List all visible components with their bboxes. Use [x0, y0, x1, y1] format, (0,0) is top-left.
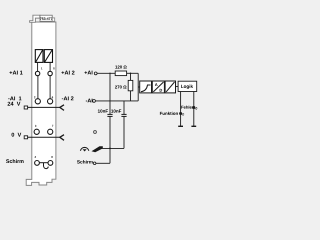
end bar Fehler line: [191, 125, 196, 127]
label 10nF C1: [98, 109, 108, 112]
terminal circle 2 (-AI 1): [35, 99, 40, 104]
terminal circle 8 (Schirm): [48, 161, 53, 166]
wire isolation to logic: [176, 86, 179, 88]
schematic label -AI: [86, 99, 93, 103]
chassis arc symbol: [80, 147, 88, 150]
wire between shield terminals: [39, 162, 48, 164]
label Fehler: [181, 106, 193, 109]
terminal circle 7: [48, 129, 53, 134]
internal reference circle: [94, 131, 97, 134]
pin number 2: [34, 96, 35, 98]
A/D converter box: [152, 81, 164, 93]
capacitor C1 lead from +AI wire: [109, 73, 111, 114]
top right step: [52, 18, 55, 21]
LED line from logic (Funktion): [180, 92, 182, 127]
filter box: [140, 81, 152, 93]
schematic -AI terminal circle: [93, 100, 96, 103]
differential input riser wire: [137, 73, 139, 101]
wire clamp1 to terminal 1: [37, 62, 39, 71]
resistor 120 ohm: [115, 71, 126, 76]
terminal circle 5 (+AI 2): [48, 71, 52, 75]
label -AI 2: [62, 96, 74, 100]
capacitor C2 lead to shield bus: [123, 116, 125, 148]
schematic +AI terminal circle: [94, 72, 97, 75]
schematic +AI wire: [97, 72, 115, 74]
LED Fehler: [192, 106, 195, 109]
0V power jumper square terminal: [24, 136, 27, 139]
0V jumper rail wire: [28, 136, 60, 138]
pin number 7: [52, 125, 53, 127]
LED line from logic (Fehler): [193, 92, 195, 127]
pin number 5: [53, 68, 54, 70]
capacitor C1 lead to shield bus: [109, 116, 111, 148]
label +AI 1: [9, 71, 22, 75]
label 120 ohm: [115, 65, 126, 68]
wire clamp2 to terminal 5: [49, 62, 51, 71]
shield clamp hook symbol: [44, 163, 49, 169]
wire riser to filter box: [138, 86, 140, 88]
shield bus wire: [101, 147, 125, 149]
24V power jumper square terminal: [24, 106, 27, 109]
top DIN latch hook: [30, 15, 40, 22]
capacitor C1 10nF plates: [107, 113, 112, 115]
pin number 1: [41, 68, 42, 70]
pin number 8: [51, 156, 52, 158]
schematic label +AI: [84, 71, 92, 75]
terminal circle 6 (-AI 2): [48, 99, 53, 104]
terminal circle 3: [34, 129, 39, 134]
terminal circle 4 (Schirm): [35, 161, 40, 166]
label 0 V: [12, 133, 22, 137]
pin number 3: [35, 125, 36, 127]
label +AI 2: [61, 71, 74, 75]
wire 270 ohm branch top: [130, 73, 132, 80]
0V jumper blade contact: [60, 135, 64, 141]
label Schirm (schematic): [77, 160, 93, 163]
schematic -AI wire: [96, 100, 139, 102]
24V jumper blade contact: [60, 105, 64, 111]
label box 753-477: [40, 15, 52, 21]
wire bus down to Schirm line: [109, 148, 111, 163]
Schirm terminal circle: [93, 162, 96, 165]
capacitor C2 lead from -AI wire: [123, 101, 125, 115]
LED Funktion: [179, 112, 182, 115]
rail blade contact symbol: [92, 146, 103, 152]
label Funktion: [160, 112, 178, 115]
wire after 120 ohm: [127, 72, 139, 74]
module body 753-477 with DIN-rail foot: [26, 22, 56, 185]
pin number 4: [35, 156, 36, 158]
label Schirm left: [6, 159, 23, 163]
wire terminal1 to terminal2: [37, 76, 39, 99]
label 270 ohm: [115, 85, 126, 88]
node C1 on +AI wire: [109, 73, 110, 74]
capacitor C2 10nF plates: [121, 113, 126, 115]
24V jumper rail wire: [28, 106, 60, 108]
pin number 6: [52, 96, 53, 98]
end bar Funktion line: [178, 125, 183, 127]
wire 270 ohm bottom to -AI line: [130, 91, 132, 101]
resistor 270 ohm: [128, 80, 133, 90]
Schirm wire: [96, 162, 110, 164]
label 24 V: [8, 102, 21, 106]
cage clamp box channel 1: [35, 50, 43, 63]
label 10nF C2: [111, 109, 121, 112]
node at 270 ohm branch: [130, 73, 132, 75]
wire terminal5 to terminal6: [49, 76, 51, 99]
label -AI 1: [8, 96, 21, 100]
cage clamp box channel 2: [44, 50, 52, 63]
logic box: [178, 81, 197, 91]
isolation box: [165, 81, 175, 93]
terminal circle 1 (+AI 1): [35, 71, 39, 75]
node shield bus: [109, 148, 111, 150]
